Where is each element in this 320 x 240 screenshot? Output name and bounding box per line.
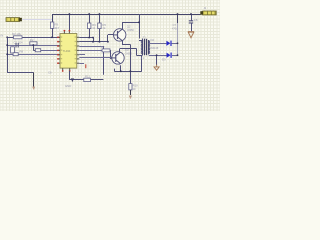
svg-text:1N4148: 1N4148 (150, 47, 159, 50)
svg-text:C7: C7 (173, 23, 177, 27)
svg-text:R8: R8 (20, 50, 24, 54)
svg-text:GND: GND (65, 84, 71, 88)
svg-text:Q2: Q2 (127, 25, 131, 29)
svg-text:R7: R7 (101, 45, 105, 49)
svg-text:R2: R2 (30, 38, 34, 42)
svg-text:C8050: C8050 (127, 29, 135, 32)
svg-text:C8: C8 (194, 18, 198, 22)
svg-text:R3 10k: R3 10k (12, 32, 21, 36)
svg-text:4k7: 4k7 (55, 26, 60, 30)
svg-text:R11: R11 (85, 74, 90, 78)
svg-text:D2: D2 (151, 38, 155, 42)
svg-text:T1: T1 (143, 36, 147, 40)
svg-text:IN: IN (1, 34, 4, 38)
svg-text:C6: C6 (48, 71, 52, 75)
svg-text:4:1: 4:1 (141, 57, 145, 60)
svg-text:TL494: TL494 (63, 49, 71, 53)
svg-text:470u: 470u (172, 28, 178, 31)
svg-text:D3: D3 (162, 58, 166, 62)
svg-text:C8050: C8050 (125, 52, 133, 55)
